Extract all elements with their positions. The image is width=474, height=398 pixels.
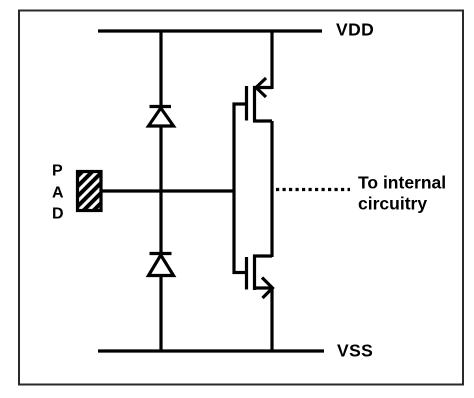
svg-text:To internal: To internal [358,173,446,193]
svg-text:circuitry: circuitry [358,194,427,214]
svg-text:VSS: VSS [337,341,373,361]
svg-text:D: D [52,206,64,223]
svg-text:VDD: VDD [336,20,374,40]
svg-text:A: A [52,184,64,201]
svg-text:P: P [52,163,63,180]
